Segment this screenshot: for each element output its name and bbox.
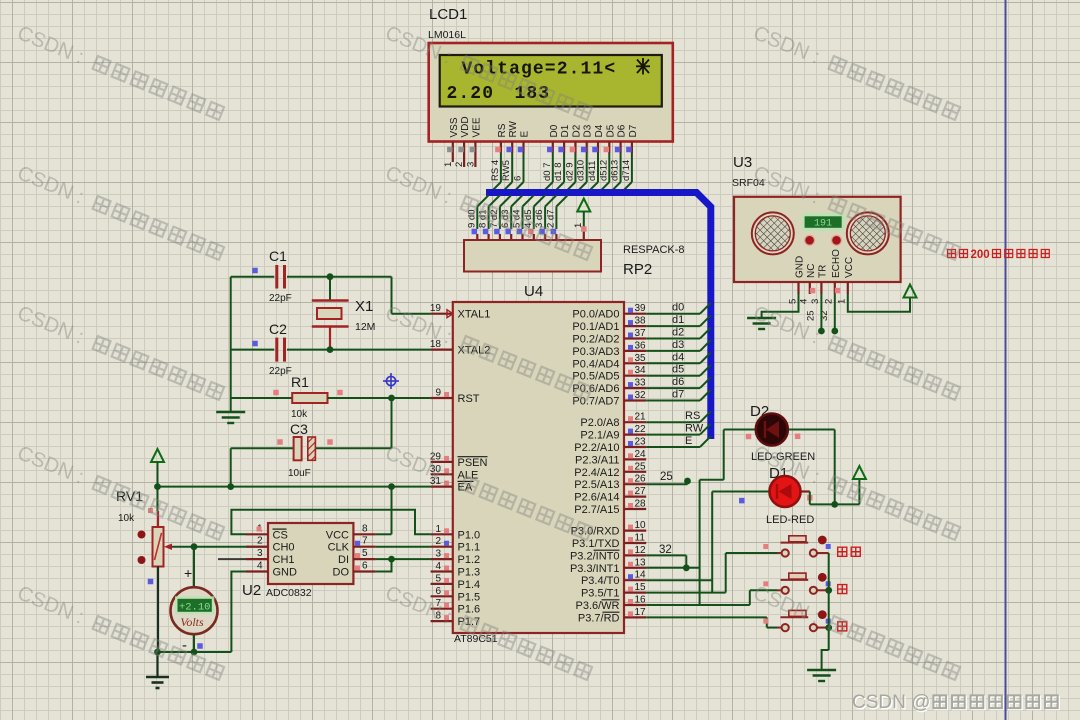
svg-text:P2.1/A9: P2.1/A9 [580, 430, 619, 442]
svg-text:D6: D6 [617, 124, 628, 137]
svg-text:3: 3 [257, 548, 263, 559]
svg-text:GND: GND [273, 567, 298, 579]
svg-text:37: 37 [635, 328, 647, 339]
svg-text:P3.4/T0: P3.4/T0 [581, 575, 620, 587]
svg-text:P3.5/T1: P3.5/T1 [581, 588, 620, 600]
svg-text:4: 4 [257, 561, 263, 572]
svg-text:CSDN :: CSDN : [382, 301, 455, 348]
svg-text:VDD: VDD [460, 116, 471, 137]
svg-text:10: 10 [635, 520, 647, 531]
svg-text:CSDN :: CSDN : [382, 441, 455, 488]
svg-text:1: 1 [573, 223, 584, 228]
svg-text:2: 2 [257, 536, 263, 547]
svg-text:CH1: CH1 [273, 554, 295, 566]
svg-text:R1: R1 [291, 374, 309, 390]
svg-text:CSDN :: CSDN : [14, 161, 87, 208]
svg-text:RW: RW [508, 120, 519, 137]
svg-text:VCC: VCC [326, 529, 349, 541]
svg-text:3: 3 [810, 299, 821, 304]
svg-text:14: 14 [635, 570, 647, 581]
svg-text:PSEN: PSEN [458, 457, 488, 469]
svg-text:P1.5: P1.5 [458, 591, 481, 603]
svg-text:P1.3: P1.3 [458, 567, 481, 579]
svg-text:d1 8: d1 8 [553, 163, 564, 182]
svg-text:P2.2/A10: P2.2/A10 [574, 442, 619, 454]
svg-text:35: 35 [635, 353, 647, 364]
svg-text:4: 4 [799, 299, 810, 304]
svg-text:P1.4: P1.4 [458, 579, 481, 591]
svg-text:5: 5 [435, 573, 441, 584]
svg-text:Volts: Volts [180, 615, 204, 629]
svg-text:39: 39 [635, 303, 647, 314]
svg-text:GND: GND [795, 256, 806, 278]
svg-text:VSS: VSS [449, 117, 460, 137]
svg-text:CSDN :: CSDN : [750, 301, 823, 348]
svg-text:32: 32 [659, 544, 672, 556]
svg-text:P3.3/INT1: P3.3/INT1 [570, 563, 620, 575]
svg-text:36: 36 [635, 340, 647, 351]
svg-text:+2.10: +2.10 [179, 602, 211, 614]
svg-text:3: 3 [465, 162, 476, 167]
svg-text:E: E [520, 131, 531, 138]
svg-text:P3.1/TXD: P3.1/TXD [572, 538, 620, 550]
svg-text:25: 25 [806, 310, 817, 321]
svg-text:TR: TR [817, 265, 828, 278]
svg-text:19: 19 [430, 303, 442, 314]
svg-text:9: 9 [435, 388, 441, 399]
svg-text:CSDN :: CSDN : [382, 581, 455, 628]
svg-text:CSDN :: CSDN : [382, 161, 455, 208]
svg-text:RESPACK-8: RESPACK-8 [623, 244, 685, 256]
svg-text:LED-RED: LED-RED [766, 514, 814, 526]
svg-text:d3: d3 [672, 339, 684, 351]
svg-text:10uF: 10uF [288, 468, 311, 479]
svg-text:15: 15 [635, 582, 647, 593]
svg-text:6: 6 [435, 586, 441, 597]
svg-text:3: 3 [435, 549, 441, 560]
svg-text:5: 5 [787, 299, 798, 304]
svg-text:P0.1/AD1: P0.1/AD1 [572, 321, 619, 333]
svg-text:2.20: 2.20 [447, 84, 495, 104]
svg-text:U2: U2 [242, 582, 261, 599]
svg-text:VCC: VCC [844, 257, 855, 278]
svg-text:200: 200 [971, 249, 990, 261]
svg-text:16: 16 [635, 595, 647, 606]
svg-text:CSDN @: CSDN @ [852, 692, 930, 713]
svg-text:D7: D7 [628, 124, 639, 137]
svg-text:11: 11 [635, 533, 646, 544]
svg-text:P0.0/AD0: P0.0/AD0 [572, 309, 619, 321]
svg-text:RW: RW [685, 423, 704, 435]
svg-text:2: 2 [824, 299, 835, 304]
svg-text:d613: d613 [610, 160, 621, 181]
svg-text:34: 34 [635, 365, 647, 376]
svg-text:32: 32 [635, 390, 647, 401]
svg-text:E: E [685, 435, 692, 447]
svg-text:CH0: CH0 [273, 542, 295, 554]
svg-text:12M: 12M [355, 321, 375, 333]
svg-text:P1.0: P1.0 [458, 529, 481, 541]
svg-text:U4: U4 [524, 283, 543, 300]
svg-text:C1: C1 [269, 248, 287, 264]
svg-text:22pF: 22pF [269, 293, 292, 304]
svg-text:191: 191 [814, 219, 832, 230]
svg-text:D5: D5 [605, 124, 616, 137]
svg-text:28: 28 [635, 499, 647, 510]
svg-text:DI: DI [338, 554, 349, 566]
svg-text:P0.4/AD4: P0.4/AD4 [572, 358, 619, 370]
svg-text:NC: NC [806, 264, 817, 278]
svg-text:P2.6/A14: P2.6/A14 [574, 492, 619, 504]
svg-text:D0: D0 [549, 124, 560, 137]
svg-text:ECHO: ECHO [831, 249, 842, 278]
svg-text:d4: d4 [672, 351, 684, 363]
svg-text:C2: C2 [269, 321, 287, 337]
svg-text:Voltage=2.11<: Voltage=2.11< [462, 60, 617, 80]
svg-text:P3.6/WR: P3.6/WR [575, 600, 619, 612]
svg-text:d512: d512 [598, 160, 609, 181]
svg-text:P2.7/A15: P2.7/A15 [574, 504, 619, 516]
svg-text:2: 2 [435, 536, 441, 547]
svg-text:D3: D3 [583, 124, 594, 137]
svg-text:6: 6 [513, 176, 524, 181]
svg-text:LCD1: LCD1 [429, 6, 467, 23]
svg-text:RP2: RP2 [623, 261, 652, 278]
svg-text:4: 4 [435, 561, 441, 572]
svg-text:d0 7: d0 7 [542, 163, 553, 182]
svg-text:27: 27 [635, 486, 647, 497]
svg-text:+: + [184, 565, 192, 581]
svg-text:P0.3/AD3: P0.3/AD3 [572, 346, 619, 358]
svg-text:d7: d7 [672, 389, 684, 401]
svg-text:23: 23 [635, 437, 647, 448]
svg-text:1: 1 [435, 524, 441, 535]
svg-text:CSDN :: CSDN : [14, 21, 87, 68]
svg-text:d2 9: d2 9 [564, 163, 575, 182]
svg-text:10k: 10k [291, 409, 308, 420]
svg-text:D1: D1 [560, 124, 571, 137]
svg-text:33: 33 [635, 378, 647, 389]
svg-text:22: 22 [635, 424, 647, 435]
svg-text:P2.4/A12: P2.4/A12 [574, 467, 619, 479]
svg-text:24: 24 [635, 449, 647, 460]
svg-text:5: 5 [362, 548, 368, 559]
svg-text:d1: d1 [672, 314, 684, 326]
svg-text:25: 25 [660, 471, 673, 483]
svg-text:17: 17 [635, 607, 647, 618]
svg-text:12: 12 [635, 545, 647, 556]
svg-text:P1.6: P1.6 [458, 604, 481, 616]
svg-text:38: 38 [635, 316, 647, 327]
svg-text:RST: RST [458, 393, 480, 405]
svg-text:1: 1 [443, 162, 454, 167]
svg-text:ADC0832: ADC0832 [266, 587, 312, 599]
svg-text:CSDN :: CSDN : [14, 441, 87, 488]
svg-text:P3.2/INT0: P3.2/INT0 [570, 550, 620, 562]
svg-text:25: 25 [635, 461, 647, 472]
svg-text:2 d7: 2 d7 [545, 210, 556, 229]
svg-text:P0.2/AD2: P0.2/AD2 [572, 334, 619, 346]
svg-text:10k: 10k [118, 513, 135, 524]
svg-text:P2.3/A11: P2.3/A11 [575, 454, 619, 466]
svg-text:D2: D2 [571, 124, 582, 137]
svg-text:1: 1 [837, 299, 848, 304]
svg-text:8: 8 [362, 523, 368, 534]
svg-text:XTAL1: XTAL1 [458, 309, 491, 321]
svg-text:d310: d310 [576, 160, 587, 181]
svg-text:X1: X1 [355, 298, 373, 315]
svg-text:C3: C3 [290, 421, 308, 437]
svg-text:P1.2: P1.2 [458, 554, 481, 566]
svg-text:CSDN :: CSDN : [750, 21, 823, 68]
svg-text:d5: d5 [672, 364, 684, 376]
svg-text:RS 4: RS 4 [490, 160, 501, 181]
svg-text:P2.0/A8: P2.0/A8 [580, 417, 619, 429]
svg-text:7: 7 [362, 536, 368, 547]
svg-text:2: 2 [454, 162, 465, 167]
svg-text:6: 6 [362, 561, 368, 572]
svg-text:13: 13 [635, 557, 647, 568]
svg-text:RS: RS [497, 123, 508, 137]
svg-text:26: 26 [635, 474, 647, 485]
svg-text:RS: RS [685, 410, 700, 422]
svg-text:d0: d0 [672, 302, 684, 314]
svg-text:VEE: VEE [471, 117, 482, 137]
svg-text:CLK: CLK [328, 542, 350, 554]
svg-text:22pF: 22pF [269, 366, 292, 377]
svg-text:U3: U3 [733, 154, 752, 171]
svg-text:CS: CS [273, 529, 288, 541]
svg-text:P1.1: P1.1 [458, 542, 481, 554]
svg-text:d6: d6 [672, 376, 684, 388]
svg-text:CSDN :: CSDN : [14, 301, 87, 348]
svg-text:d2: d2 [672, 327, 684, 339]
svg-text:21: 21 [635, 412, 647, 423]
svg-text:D4: D4 [594, 124, 605, 137]
svg-text:P3.7/RD: P3.7/RD [578, 612, 620, 624]
svg-text:RW5: RW5 [501, 160, 512, 181]
svg-text:CSDN :: CSDN : [14, 581, 87, 628]
svg-text:DO: DO [333, 567, 350, 579]
svg-text:d714: d714 [621, 160, 632, 181]
svg-text:d411: d411 [587, 161, 598, 181]
svg-text:P2.5/A13: P2.5/A13 [574, 479, 619, 491]
